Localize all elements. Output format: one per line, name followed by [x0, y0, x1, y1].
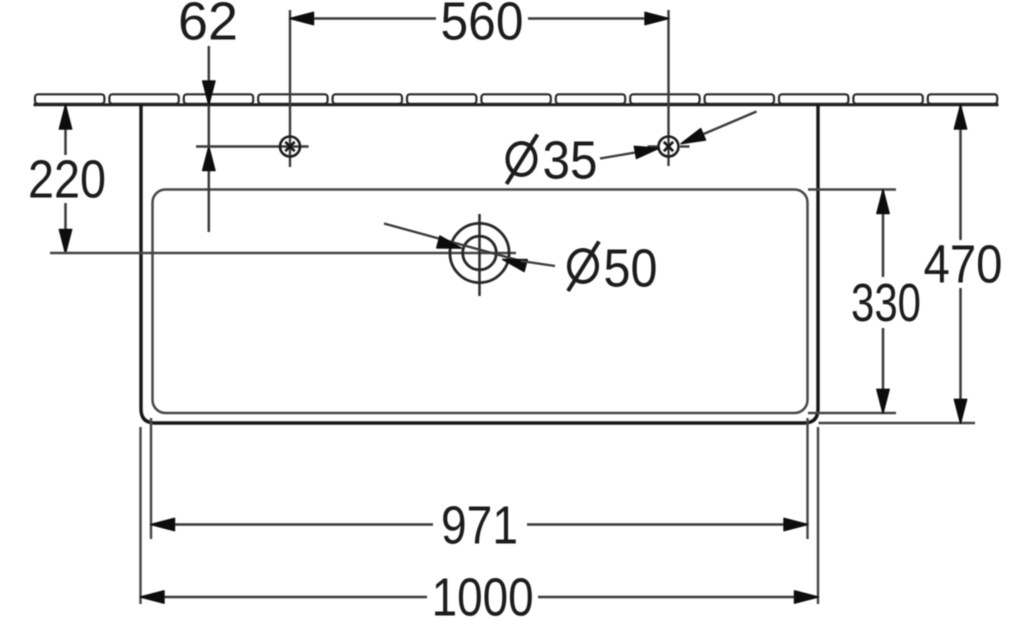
- label d50: diameter symbol: [568, 242, 599, 292]
- dim 220: dimension line: [64, 106, 67, 156]
- svg-text:220: 220: [28, 150, 106, 210]
- dim 560: left arrow: [290, 12, 314, 24]
- drain outer circle: [450, 223, 509, 282]
- dim 470: extension line bottom: [819, 422, 976, 424]
- dim 560: extension line right (hole centerline): [667, 10, 669, 166]
- svg-text:62: 62: [178, 0, 238, 52]
- drain centerline vertical: [478, 214, 481, 296]
- dim 62: up arrow: [203, 147, 215, 171]
- svg-text:35: 35: [543, 131, 598, 191]
- label d35: leader right diagonal: [686, 112, 757, 142]
- wall tile row (13 segments): [35, 94, 997, 104]
- label d50: arrow upper-left: [437, 236, 463, 254]
- svg-text:330: 330: [851, 273, 921, 333]
- dim 971: extension line left: [150, 418, 152, 539]
- tap hole right: cross: [664, 142, 673, 151]
- label d35: diameter symbol: [507, 135, 538, 185]
- wall line / basin top edge: [34, 103, 999, 106]
- dim 62: dimension line: [208, 46, 211, 232]
- dim 1000: right arrow: [795, 591, 819, 603]
- tap hole left: circle: [280, 137, 300, 157]
- dim 1000: left arrow: [140, 591, 164, 603]
- dim 470: down arrow: [954, 399, 966, 423]
- drain centerline horizontal (220 reference): [50, 252, 516, 254]
- label d35: arrow right: [679, 129, 706, 150]
- dim 220: down arrow: [59, 230, 71, 254]
- svg-text:560: 560: [441, 0, 524, 52]
- label d50: arrow lower-right: [501, 253, 527, 271]
- dim 560: right arrow: [645, 12, 669, 24]
- tap hole left: cross: [285, 142, 294, 151]
- tap hole right: circle: [659, 137, 679, 157]
- dim 971: dimension line: [151, 523, 433, 526]
- svg-text:1000: 1000: [432, 568, 534, 628]
- svg-text:50: 50: [604, 239, 658, 299]
- dim 560: dimension line: [290, 17, 436, 20]
- svg-text:470: 470: [924, 235, 1003, 295]
- dim 971: right arrow: [784, 518, 808, 530]
- dim 971: extension line right: [806, 418, 808, 539]
- tap hole left: horizontal centerline: [196, 145, 309, 147]
- drain hole circle d50: [463, 236, 497, 270]
- dim 971: left arrow: [151, 518, 175, 530]
- dim 330: up arrow: [877, 190, 889, 214]
- dim 470: dimension line: [959, 106, 962, 241]
- label d35: arrow left: [634, 142, 660, 158]
- dim 330: dimension line: [882, 190, 885, 277]
- dim 330: extension line bottom: [808, 412, 896, 414]
- label d50: diagonal leader: [384, 224, 521, 262]
- dim 330: extension line top: [808, 188, 896, 190]
- svg-text:971: 971: [441, 496, 518, 556]
- basin outer outline: [141, 105, 818, 423]
- label d50: horizontal leader: [521, 261, 555, 266]
- basin inner rim (rounded rect): [153, 190, 808, 414]
- dim 330: down arrow: [877, 389, 889, 413]
- dim 1000: dimension line: [141, 596, 428, 599]
- dim 1000: extension line left: [139, 427, 141, 604]
- dim 470: up arrow: [954, 105, 966, 129]
- dim 1000: extension line right: [817, 427, 819, 604]
- tap hole right: side ticks: [648, 145, 658, 147]
- dim 220: up arrow: [59, 105, 71, 129]
- dim 560: extension line left (hole centerline): [289, 10, 291, 167]
- label d35: leader left: [600, 150, 653, 159]
- dim 62: down arrow: [203, 81, 215, 105]
